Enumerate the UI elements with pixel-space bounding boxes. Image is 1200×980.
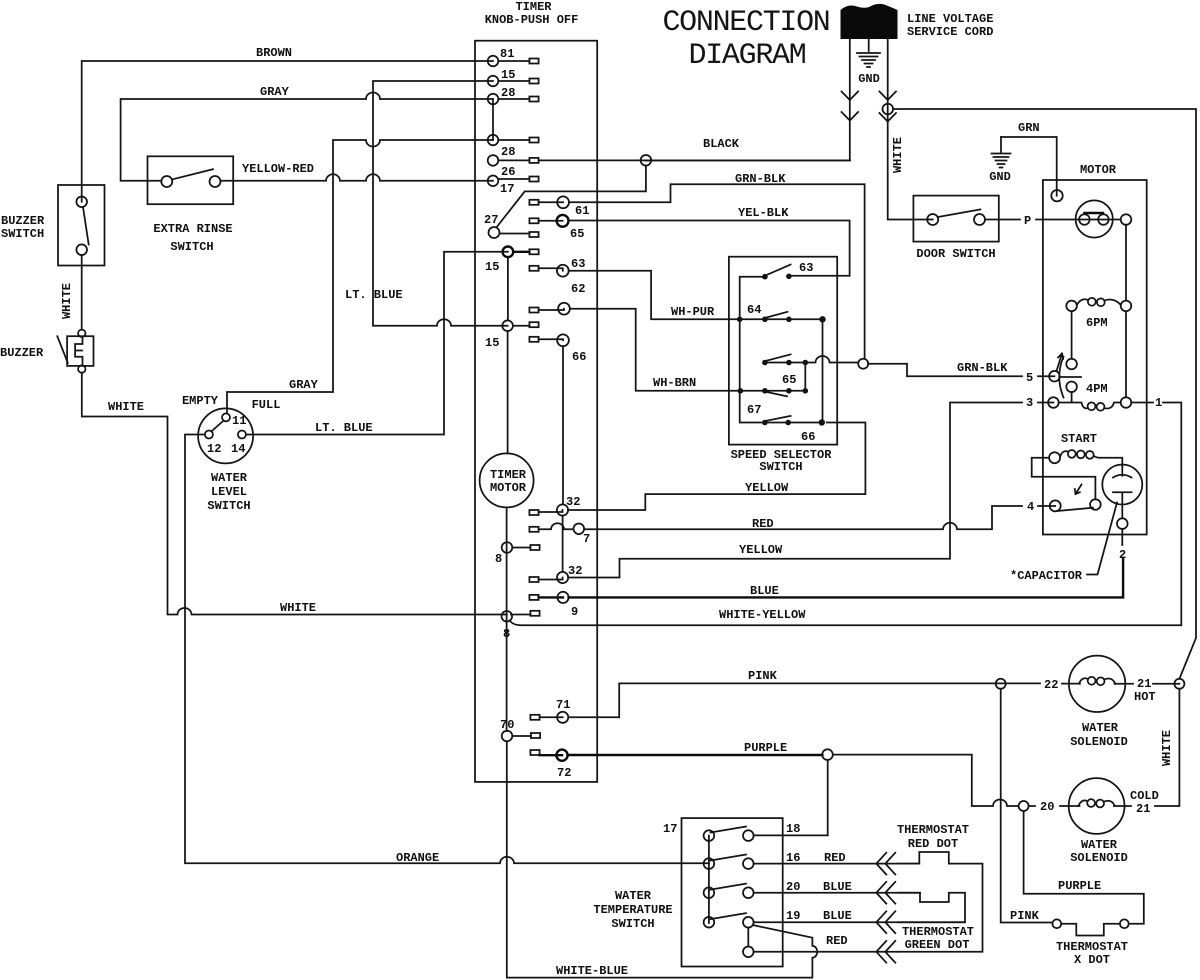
ground symbol (cord GND) — [857, 53, 880, 86]
svg-text:16: 16 — [786, 851, 800, 865]
motor centrifugal switch — [1076, 200, 1132, 237]
svg-text:*CAPACITOR: *CAPACITOR — [1010, 569, 1083, 583]
svg-text:PINK: PINK — [1010, 909, 1040, 923]
svg-text:THERMOSTAT: THERMOSTAT — [897, 823, 969, 837]
svg-text:YEL-BLK: YEL-BLK — [738, 206, 789, 220]
svg-text:BROWN: BROWN — [256, 46, 292, 60]
terminal 66 — [529, 334, 586, 364]
wire PINK vertical (22 to thermostat x dot) — [1001, 689, 1053, 923]
extra rinse switch — [148, 156, 234, 204]
svg-text:GREEN DOT: GREEN DOT — [905, 938, 970, 952]
terminal 5 (motor) — [1026, 371, 1060, 385]
svg-text:9: 9 — [571, 605, 578, 619]
switch 65 (speed selector) — [762, 354, 808, 387]
junction PINK at 22 — [996, 679, 1006, 689]
wire GRAY — [121, 93, 493, 181]
wire PINK (71 to water solenoid hot) — [568, 683, 1040, 717]
switch 63 (speed selector) — [762, 261, 813, 280]
terminal 3 (motor) — [1026, 396, 1059, 410]
svg-text:WATER: WATER — [211, 471, 248, 485]
svg-text:SWITCH: SWITCH — [170, 240, 213, 254]
wire BLACK branch to terminal 27 — [497, 166, 646, 228]
wire WH-BRN (62 to speed selector 67) — [570, 309, 741, 391]
label WATER LEVEL SWITCH — [207, 471, 250, 513]
terminal 26 — [488, 155, 539, 179]
svg-text:PURPLE: PURPLE — [744, 741, 787, 755]
wire terminal 15 to LT. BLUE riser — [373, 81, 508, 326]
wire 28 to 28 link — [492, 99, 494, 140]
terminal 27 — [484, 213, 539, 238]
door switch — [913, 196, 998, 242]
speed selector left bus — [740, 277, 765, 423]
wire ORANGE (water level 12 to water temp switch) — [185, 435, 709, 864]
wire motor right bus — [1125, 225, 1127, 397]
svg-text:63: 63 — [799, 261, 813, 275]
svg-text:FULL: FULL — [252, 398, 281, 412]
svg-text:TIMER: TIMER — [490, 468, 527, 482]
svg-text:20: 20 — [786, 880, 800, 894]
svg-text:THERMOSTAT: THERMOSTAT — [1056, 940, 1128, 954]
svg-text:BLACK: BLACK — [703, 137, 740, 151]
svg-text:27: 27 — [484, 213, 498, 227]
switch row 16 — [704, 855, 920, 869]
svg-text:72: 72 — [557, 766, 571, 780]
wire white to right edge — [893, 109, 1196, 679]
label WATER TEMPERATURE SWITCH — [593, 889, 672, 931]
terminal 7 — [529, 523, 590, 546]
svg-text:ORANGE: ORANGE — [396, 851, 439, 865]
start switch lever — [1057, 508, 1093, 511]
terminal 72 — [530, 750, 571, 780]
svg-text:12: 12 — [207, 442, 221, 456]
svg-text:MOTOR: MOTOR — [1080, 163, 1117, 177]
wire 18 row riser to purple junction — [827, 760, 829, 835]
svg-text:WATER: WATER — [615, 889, 652, 903]
motor ground terminal — [1051, 190, 1062, 201]
wire service cord black conductor — [646, 39, 850, 161]
terminal 15 (third, to lt-blue lower) — [485, 247, 539, 275]
switch row red (fifth terminal) — [743, 928, 898, 958]
terminal 9 — [529, 592, 578, 619]
switch 67 (speed selector) — [738, 388, 808, 417]
svg-text:21: 21 — [1136, 802, 1150, 816]
svg-text:RED: RED — [752, 517, 774, 531]
svg-text:PINK: PINK — [748, 669, 778, 683]
terminal 63 — [529, 257, 585, 277]
svg-text:LINE VOLTAGE: LINE VOLTAGE — [907, 12, 993, 26]
svg-text:14: 14 — [231, 442, 245, 456]
wire GRN to motor — [1001, 137, 1057, 196]
terminal 70 — [500, 718, 540, 741]
svg-text:70: 70 — [500, 718, 514, 732]
wire GRN-BLK to motor 5 — [868, 364, 1022, 377]
switch 66 (speed selector) — [762, 416, 825, 444]
svg-text:YELLOW: YELLOW — [745, 481, 789, 495]
svg-text:GRN-BLK: GRN-BLK — [735, 172, 786, 186]
title CONNECTION DIAGRAM — [662, 6, 829, 73]
svg-text:CONNECTION: CONNECTION — [662, 6, 829, 40]
arrowhead black conductor 2 — [842, 112, 859, 121]
svg-text:BUZZER: BUZZER — [0, 346, 44, 360]
svg-text:WH-BRN: WH-BRN — [653, 376, 696, 390]
switch row 17-18 — [704, 827, 828, 841]
wire BLACK 26 row to junction — [539, 159, 850, 161]
svg-text:66: 66 — [572, 350, 586, 364]
svg-text:TIMER: TIMER — [515, 0, 552, 14]
svg-text:65: 65 — [782, 373, 796, 387]
svg-text:SOLENOID: SOLENOID — [1070, 735, 1128, 749]
svg-text:62: 62 — [571, 282, 585, 296]
wire 65 output to junction — [805, 356, 858, 362]
water temp switch left bus — [708, 836, 710, 923]
svg-text:WHITE: WHITE — [280, 601, 316, 615]
wire WHITE buzzer to timer 8 — [82, 373, 507, 615]
wire RED (7 to motor 4) — [584, 506, 1022, 529]
svg-text:SERVICE CORD: SERVICE CORD — [907, 25, 993, 39]
svg-text:GRN-BLK: GRN-BLK — [957, 361, 1008, 375]
svg-text:81: 81 — [500, 47, 514, 61]
svg-text:TEMPERATURE: TEMPERATURE — [593, 903, 672, 917]
svg-text:3: 3 — [1026, 396, 1033, 410]
wire right edge 21 to cold row — [1155, 689, 1179, 806]
svg-text:BLUE: BLUE — [750, 584, 779, 598]
thermostat chevrons row red — [876, 941, 895, 963]
svg-text:20: 20 — [1040, 800, 1054, 814]
svg-text:THERMOSTAT: THERMOSTAT — [902, 925, 974, 939]
svg-text:26: 26 — [501, 165, 515, 179]
svg-text:32: 32 — [566, 495, 580, 509]
wire PURPLE junction to water solenoid cold — [833, 755, 1019, 806]
arrowhead black conductor 1 — [842, 92, 859, 101]
svg-text:28: 28 — [501, 86, 515, 100]
svg-text:8: 8 — [503, 627, 510, 641]
terminal 65 — [529, 215, 584, 241]
water solenoid (cold) — [1069, 778, 1128, 865]
label SPEED SELECTOR SWITCH — [731, 448, 833, 474]
terminal 17 — [488, 176, 539, 197]
svg-text:WHITE: WHITE — [1160, 730, 1174, 766]
start switch actuator arrow — [1075, 485, 1082, 495]
svg-text:32: 32 — [568, 564, 582, 578]
svg-text:GND: GND — [858, 72, 880, 86]
svg-text:BLUE: BLUE — [823, 909, 852, 923]
arrowhead white conductor 2 — [879, 113, 896, 122]
label THERMOSTAT RED DOT — [897, 823, 969, 851]
wire YELLOW (32 to speed selector 66) — [568, 423, 865, 511]
wire WH-PUR (63 to speed selector 64) — [569, 271, 740, 320]
buzzer — [57, 330, 93, 373]
wire BROWN — [82, 61, 493, 202]
svg-text:4PM: 4PM — [1086, 382, 1108, 396]
svg-text:8: 8 — [495, 552, 502, 566]
label COLD 21 — [1130, 789, 1159, 816]
svg-text:SWITCH: SWITCH — [611, 917, 654, 931]
svg-text:START: START — [1061, 432, 1097, 446]
wire service cord white conductor — [888, 39, 933, 220]
svg-text:LT. BLUE: LT. BLUE — [345, 288, 403, 302]
svg-text:65: 65 — [570, 227, 584, 241]
svg-text:RED DOT: RED DOT — [908, 837, 958, 851]
wire 66-32-32 chain — [562, 346, 564, 571]
svg-text:17: 17 — [500, 182, 514, 196]
wire YEL-BLK (65 to speed selector 63) — [569, 221, 850, 276]
svg-text:GRAY: GRAY — [289, 378, 319, 392]
service cord (black blob) — [841, 4, 898, 39]
svg-text:SWITCH: SWITCH — [207, 499, 250, 513]
wire YELLOW (32 lower to motor 3) — [568, 403, 1022, 578]
label BUZZER SWITCH — [1, 214, 45, 241]
svg-text:SWITCH: SWITCH — [759, 460, 802, 474]
junction at 21 (hot) — [1174, 679, 1184, 689]
svg-text:BUZZER: BUZZER — [1, 214, 45, 228]
switch row 19 — [704, 913, 965, 927]
svg-text:DOOR SWITCH: DOOR SWITCH — [916, 247, 995, 261]
svg-text:11: 11 — [232, 414, 246, 428]
svg-text:WATER: WATER — [1081, 838, 1118, 852]
buzzer switch — [58, 185, 105, 266]
wire 20 junction down to thermostat x dot — [1024, 811, 1144, 924]
svg-text:15: 15 — [485, 260, 499, 274]
svg-text:X DOT: X DOT — [1074, 953, 1110, 967]
speed selector right bus (64 to 66) — [822, 319, 824, 422]
wire buzzer switch to buzzer (WHITE) — [81, 255, 83, 330]
wire LT. BLUE (lower, water level 14 to timer 15) — [246, 252, 508, 435]
junction terminal 20 — [1019, 801, 1029, 811]
terminal 8 (lower) — [502, 611, 540, 641]
svg-text:7: 7 — [583, 532, 590, 546]
svg-text:71: 71 — [556, 698, 570, 712]
svg-text:17: 17 — [663, 822, 677, 836]
svg-text:WHITE: WHITE — [891, 137, 905, 173]
label 16 RED — [786, 851, 846, 865]
water solenoid (hot) — [1069, 656, 1128, 749]
wire WHITE-YELLOW (8 to motor 1) — [510, 403, 1182, 626]
svg-text:15: 15 — [485, 336, 499, 350]
svg-text:WH-PUR: WH-PUR — [671, 305, 715, 319]
svg-text:66: 66 — [801, 430, 815, 444]
svg-text:WHITE-BLUE: WHITE-BLUE — [556, 964, 628, 978]
svg-text:1: 1 — [1155, 396, 1162, 410]
svg-text:RED: RED — [826, 934, 848, 948]
svg-text:LT. BLUE: LT. BLUE — [315, 421, 373, 435]
junction BLACK — [641, 155, 652, 166]
svg-text:WATER: WATER — [1082, 721, 1119, 735]
label THERMOSTAT GREEN DOT — [902, 925, 974, 952]
capacitor — [1102, 465, 1142, 563]
motor speed selector contacts — [1057, 354, 1082, 403]
wire start winding jog to start switch — [1032, 458, 1096, 500]
svg-text:SOLENOID: SOLENOID — [1070, 851, 1128, 865]
label TIMER KNOB-PUSH OFF — [485, 0, 579, 27]
svg-text:WHITE-YELLOW: WHITE-YELLOW — [719, 608, 806, 622]
switch row 20 — [704, 884, 920, 898]
arrowhead white conductor 1 — [879, 92, 896, 101]
svg-text:4: 4 — [1027, 500, 1034, 514]
svg-text:KNOB-PUSH OFF: KNOB-PUSH OFF — [485, 13, 579, 27]
svg-text:28: 28 — [501, 145, 515, 159]
svg-text:61: 61 — [575, 204, 589, 218]
switch 64 (speed selector) — [737, 303, 826, 322]
wire WHITE-BLUE (timer 70 to thermostat) — [507, 741, 817, 977]
svg-text:HOT: HOT — [1134, 690, 1156, 704]
thermostat x dot — [1052, 919, 1128, 967]
terminal 15 — [488, 68, 539, 86]
terminal 32 (lower) — [529, 564, 582, 583]
svg-text:2: 2 — [1119, 548, 1126, 562]
svg-text:LEVEL: LEVEL — [211, 485, 247, 499]
ground symbol (motor GND) — [989, 137, 1011, 184]
label 4PM and winding — [1059, 382, 1147, 411]
label 19 BLUE — [786, 909, 852, 923]
terminal 32 (upper) — [529, 495, 580, 516]
svg-text:22: 22 — [1044, 678, 1058, 692]
wire 28 row to water level switch (GRAY) — [227, 140, 493, 414]
terminal 4 (motor) — [1027, 500, 1061, 514]
label 21 HOT — [1134, 677, 1156, 704]
junction white wire top — [883, 104, 894, 115]
svg-text:RED: RED — [824, 851, 846, 865]
thermostat chevrons row 20 — [876, 882, 895, 904]
svg-text:SWITCH: SWITCH — [1, 227, 44, 241]
thermostat green dot outline — [898, 893, 965, 923]
motor box — [1043, 180, 1147, 535]
terminal 62 — [529, 282, 585, 315]
svg-text:GND: GND — [989, 170, 1011, 184]
terminal 28 (first) — [488, 86, 539, 104]
label EXTRA RINSE SWITCH — [153, 222, 232, 254]
svg-text:GRAY: GRAY — [260, 85, 290, 99]
speed selector mid link (65 to 67) — [804, 363, 806, 391]
water level switch — [198, 408, 253, 463]
wire PURPLE (72 to junction) — [568, 754, 823, 756]
svg-text:63: 63 — [571, 257, 585, 271]
wire 6PM to speed contact — [1071, 311, 1073, 359]
svg-text:19: 19 — [786, 909, 800, 923]
speed selector switch box — [729, 257, 837, 445]
junction PURPLE — [822, 749, 833, 760]
wire timer internal chain 15-15-motor-8-8 — [507, 257, 508, 731]
wire service cord green conductor — [868, 39, 870, 51]
terminal 28 (second) — [488, 135, 539, 159]
svg-text:MOTOR: MOTOR — [490, 481, 527, 495]
svg-text:GRN: GRN — [1018, 121, 1040, 135]
terminal 71 — [530, 698, 570, 723]
wire GRN-BLK (61 to speed selector riser) — [569, 184, 865, 358]
motor 6PM winding — [1066, 298, 1131, 330]
terminal 81 — [488, 47, 539, 66]
svg-text:EXTRA RINSE: EXTRA RINSE — [153, 222, 232, 236]
thermostat chevrons row 19 — [876, 911, 895, 933]
wire door switch to motor P — [985, 219, 1020, 221]
wire YELLOW-RED — [221, 174, 494, 181]
thermostat chevrons row 16 — [876, 853, 895, 875]
label 20 BLUE — [786, 880, 852, 894]
svg-text:EMPTY: EMPTY — [182, 394, 219, 408]
thermostat red dot outline — [898, 852, 983, 952]
timer motor — [480, 453, 534, 507]
label LINE VOLTAGE SERVICE CORD — [907, 12, 993, 39]
svg-text:6PM: 6PM — [1086, 316, 1108, 330]
svg-text:P: P — [1024, 214, 1031, 228]
terminal 15 (fourth) — [485, 320, 539, 350]
svg-text:WHITE: WHITE — [108, 400, 144, 414]
wire BLUE (9 to capacitor 2) — [569, 559, 1124, 597]
terminal 8 (upper) — [495, 542, 540, 566]
terminal 61 — [529, 196, 589, 218]
svg-text:64: 64 — [747, 303, 761, 317]
svg-text:DIAGRAM: DIAGRAM — [689, 39, 806, 73]
svg-text:YELLOW-RED: YELLOW-RED — [242, 162, 314, 176]
svg-text:18: 18 — [786, 822, 800, 836]
timer box — [475, 41, 597, 782]
start switch contact — [1090, 499, 1101, 510]
label *CAPACITOR with pointer — [1010, 503, 1117, 584]
svg-text:15: 15 — [501, 68, 515, 82]
svg-text:PURPLE: PURPLE — [1058, 879, 1101, 893]
label START and start winding — [1049, 432, 1122, 466]
svg-text:COLD: COLD — [1130, 789, 1159, 803]
svg-text:21: 21 — [1137, 677, 1151, 691]
svg-text:WHITE: WHITE — [60, 283, 74, 319]
svg-text:5: 5 — [1026, 371, 1033, 385]
svg-text:BLUE: BLUE — [823, 880, 852, 894]
svg-text:YELLOW: YELLOW — [739, 543, 783, 557]
water temperature switch box — [682, 818, 783, 966]
junction GRN-BLK — [858, 359, 868, 369]
svg-text:67: 67 — [747, 403, 761, 417]
